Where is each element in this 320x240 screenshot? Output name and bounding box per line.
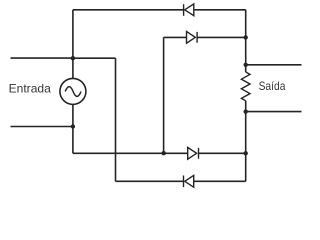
wire second row left of D2 (164, 36, 187, 38)
node D junction dot (244, 151, 248, 155)
wire AC source bottom lead (72, 104, 74, 126)
node C junction dot (162, 151, 166, 155)
node B junction dot (71, 124, 75, 128)
wire right vertical upper (corner to resistor top) (245, 10, 247, 72)
wire top-left vertical (72, 10, 74, 58)
wire vertical x=163.5 (second row to node C) (163, 37, 165, 153)
wire input upper (left edge to node A) (11, 57, 73, 59)
resistor R1 (load) (241, 72, 250, 101)
AC source V1 (circle with sine) (60, 78, 86, 104)
wire top horizontal left of D1 (73, 9, 184, 11)
wire AC source top lead (72, 58, 74, 78)
svg-text:Saída: Saída (259, 79, 286, 93)
diode D1 (top row, pointing left) (184, 4, 194, 16)
wire vertical x=115.5 (115, 58, 117, 181)
wire top horizontal right of D1 (194, 9, 246, 11)
wire node B down to third row (72, 127, 74, 154)
wire bottom row left of D4 (116, 180, 184, 182)
node A junction dot (71, 56, 75, 60)
node G junction dot (resistor bottom) (244, 109, 248, 113)
wire node A to x=115.5 (73, 57, 116, 59)
wire output upper (246, 64, 302, 66)
diode D4 (bottom row, pointing left) (184, 175, 194, 187)
svg-text:Entrada: Entrada (9, 82, 52, 96)
wire output lower (246, 111, 302, 113)
wire input lower (left edge to node B) (11, 126, 73, 128)
diode D3 (third row, pointing right) (188, 147, 199, 159)
node F junction dot (resistor top) (244, 63, 248, 67)
wire bottom row right of D4 (194, 180, 246, 182)
node E junction dot (second row / right rail) (244, 35, 248, 39)
wire third row left of D3 (73, 152, 188, 154)
wire second row right of D2 (197, 36, 246, 38)
diode D2 (second row, pointing right) (187, 31, 198, 43)
wire third row right of D3 (199, 152, 246, 154)
wire right vertical lower (resistor bottom to corner) (245, 101, 247, 182)
